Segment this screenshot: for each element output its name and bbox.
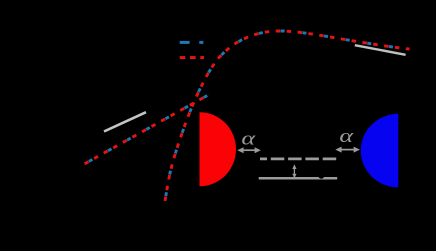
red half-disc (inset left cylinder) [200,112,237,186]
right alpha arrow (double-headed) [335,147,360,153]
main saturating curve, blue dash overlay [165,31,410,201]
blue half-disc (inset right cylinder) [361,114,399,188]
legend blue dash-dot sample [180,41,204,44]
black notch over solid line [318,173,324,179]
inset solid gray line (substrate) [259,177,338,180]
svg-text:α: α [339,125,354,146]
inset dashed gray line (mid plane) [260,158,336,161]
gray guide segment upper-right [355,45,406,55]
vertical double arrow between planes [292,164,296,178]
lower-left straight line, blue dash overlay [85,95,209,164]
legend red dashed sample [180,56,204,59]
gray guide segment lower-left [104,112,146,131]
left alpha arrow (double-headed) [237,147,261,153]
lower-left straight line, red dashed stroke [85,95,209,164]
main saturating curve, red dashed stroke [165,31,410,201]
svg-text:α: α [241,128,256,149]
